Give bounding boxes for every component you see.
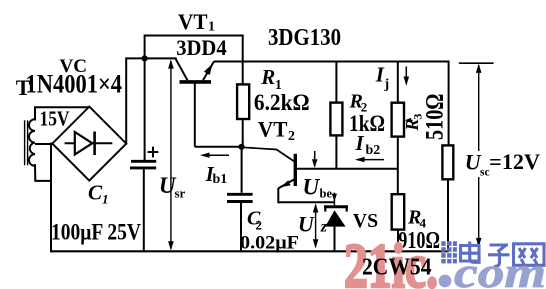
transistor VT2 <box>278 154 398 203</box>
svg-text:sr: sr <box>175 186 186 201</box>
3DD4 case box <box>145 36 243 85</box>
I_j arrow <box>404 67 410 86</box>
watermark dian zi wang characters <box>461 242 545 267</box>
transistor VT1 <box>176 59 214 147</box>
watermark .com <box>439 275 452 288</box>
svg-text:I: I <box>375 63 385 87</box>
resistor R2 <box>330 62 342 169</box>
svg-text:C1: C1 <box>88 181 109 207</box>
U_be reference arrow bottom / zener top lead <box>332 193 337 206</box>
U_be reference arrow top <box>312 151 318 168</box>
bridge rectifier VC <box>52 107 126 181</box>
svg-text:2: 2 <box>288 129 295 144</box>
svg-text:=12V: =12V <box>489 149 540 174</box>
svg-text:be: be <box>320 187 333 201</box>
svg-text:15V: 15V <box>40 106 70 130</box>
watermark logo grid <box>441 241 457 263</box>
U_sr arrow <box>168 59 174 250</box>
svg-text:6.2kΩ: 6.2kΩ <box>254 90 310 116</box>
svg-text:VS: VS <box>353 210 378 232</box>
svg-text:1: 1 <box>208 20 215 35</box>
svg-text:3DG130: 3DG130 <box>268 25 341 51</box>
svg-text:R: R <box>260 65 275 89</box>
resistor R1 <box>237 84 249 146</box>
bridge diode symbol <box>65 132 113 156</box>
capacitor C1 lead top <box>144 58 146 159</box>
zener diode VS <box>324 207 348 252</box>
U_sc top tick <box>459 62 494 64</box>
I_b2 annotation arrow <box>355 157 384 162</box>
wire secondary bottom <box>35 165 51 181</box>
wire bridge left corner to ground rail <box>50 144 52 252</box>
svg-text:1N4001×4: 1N4001×4 <box>26 70 123 99</box>
transformer T core <box>24 121 26 165</box>
junction node B <box>239 144 245 150</box>
label R3 rotated <box>402 114 425 132</box>
wire bridge right corner to node A <box>126 58 176 143</box>
capacitor C2 <box>227 147 253 252</box>
resistor R3 adjustable <box>392 62 413 195</box>
capacitor C1 <box>130 147 158 252</box>
svg-text:z: z <box>320 218 328 235</box>
transformer T secondary winding <box>29 119 35 166</box>
svg-text:U: U <box>298 211 315 236</box>
svg-text:com: com <box>454 250 546 289</box>
output rail (emitter rail) <box>214 61 450 63</box>
svg-text:I: I <box>355 131 365 155</box>
ground rail <box>51 250 449 252</box>
U_sc arrow <box>476 64 482 248</box>
svg-text:1kΩ: 1kΩ <box>349 111 385 136</box>
I_b1 annotation arrow <box>200 153 229 158</box>
wire bridge left corner tap <box>36 143 52 145</box>
svg-text:VT: VT <box>178 9 208 34</box>
resistor R4 <box>392 194 405 251</box>
wire VT1 base to node B <box>195 146 242 148</box>
svg-text:3DD4: 3DD4 <box>176 35 227 60</box>
U_z arrow <box>313 203 319 248</box>
wire secondary top to bridge <box>35 107 88 119</box>
svg-text:0.02μF: 0.02μF <box>240 233 299 254</box>
junction node A <box>142 55 148 61</box>
svg-text:sc: sc <box>480 166 490 178</box>
svg-text:VT: VT <box>258 117 288 142</box>
svg-text:b1: b1 <box>213 172 228 187</box>
svg-text:2: 2 <box>256 218 263 233</box>
svg-text:j: j <box>384 77 390 92</box>
plus sign <box>148 151 159 153</box>
svg-text:510Ω: 510Ω <box>422 94 449 141</box>
svg-text:2CW54: 2CW54 <box>362 254 432 280</box>
wire node B to VT2 collector <box>242 147 295 161</box>
svg-text:U: U <box>303 175 321 200</box>
svg-text:b2: b2 <box>366 143 381 158</box>
svg-text:100μF 25V: 100μF 25V <box>51 219 141 245</box>
load resistor <box>442 62 453 252</box>
